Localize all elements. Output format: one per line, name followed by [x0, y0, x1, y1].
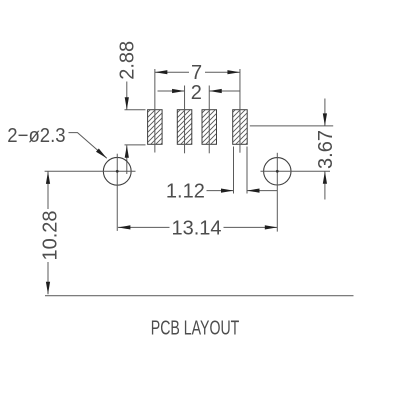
arrowhead 1.12 left — [221, 189, 234, 193]
dimension 1.12 extension lines — [234, 147, 248, 194]
arrowhead 13.14 right — [265, 225, 278, 229]
svg-text:7: 7 — [191, 62, 202, 84]
dimension 3.67 line — [324, 99, 326, 200]
hole H1 left circle — [103, 157, 131, 185]
hole H2 right circle — [264, 158, 291, 185]
arrowhead 2.88 bottom — [125, 145, 129, 158]
pad P4 — [233, 110, 248, 145]
svg-text:3.67: 3.67 — [315, 130, 337, 169]
hole H2 center dot — [276, 170, 279, 173]
dimension 3.67 extension line from pad — [250, 125, 333, 127]
arrowhead 10.28 top — [46, 171, 50, 184]
dimension 2.88 line — [126, 82, 128, 175]
hole H1 crosshair horizontal (also 10.28 extension) — [45, 170, 136, 172]
arrowhead 2 right — [209, 89, 222, 93]
svg-text:10.28: 10.28 — [40, 210, 62, 260]
arrowhead 3.67 bottom — [323, 171, 327, 184]
hole H2 crosshair horizontal (also 3.67 extension) — [261, 170, 331, 172]
arrowhead 1.12 right — [247, 189, 260, 193]
hole H1 center dot — [116, 170, 119, 173]
svg-text:PCB LAYOUT: PCB LAYOUT — [151, 317, 240, 339]
arrowhead 7 left — [155, 70, 168, 74]
pad P1 — [148, 110, 163, 145]
dimension 7 line — [155, 71, 240, 73]
leader line for 2-dia2.3 — [69, 133, 107, 159]
svg-text:2.88: 2.88 — [116, 41, 138, 80]
PCB edge line — [45, 295, 354, 297]
pad P2 — [177, 110, 192, 145]
hole H2 crosshair vertical (also 13.14 extension) — [276, 153, 278, 232]
centerline pad P2 — [184, 86, 186, 154]
arrowhead leader — [96, 149, 107, 159]
arrowhead 7 right — [227, 70, 240, 74]
svg-text:2: 2 — [191, 82, 202, 104]
arrowhead 13.14 left — [118, 225, 130, 229]
centerline pad P4 — [239, 69, 241, 153]
svg-text:1.12: 1.12 — [166, 181, 205, 203]
dimension 2 line — [158, 90, 241, 92]
dimension 1.12 line — [207, 190, 278, 192]
centerline pad P3 — [208, 86, 210, 154]
pad P3 — [202, 110, 217, 145]
arrowhead 2 left — [172, 89, 185, 93]
svg-text:2−ø2.3: 2−ø2.3 — [7, 125, 65, 147]
dimension 13.14 line — [118, 226, 277, 228]
dimension 2.88 extension lines — [125, 110, 146, 145]
dimension 10.28 line — [47, 171, 49, 294]
svg-text:13.14: 13.14 — [171, 218, 221, 240]
arrowhead 2.88 top — [125, 97, 129, 110]
centerline pad P1 — [154, 69, 156, 153]
arrowhead 3.67 top — [323, 113, 327, 126]
hole H1 crosshair vertical (also 13.14 extension) — [116, 154, 118, 231]
arrowhead 10.28 bottom — [46, 282, 50, 295]
